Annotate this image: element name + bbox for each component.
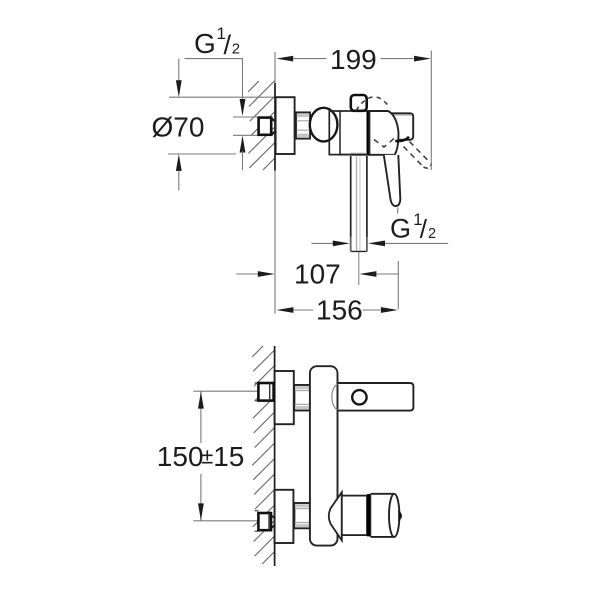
wall hatch (front view) [252, 346, 274, 564]
spout hole (front view) [352, 390, 366, 404]
body bottom edge (side view) [338, 154, 367, 156]
svg-text:2: 2 [232, 41, 240, 58]
upper flange (front view) [275, 371, 294, 424]
handle cylinder (front view) [342, 496, 367, 535]
G1/2 outlet dimension line and arrows [312, 237, 449, 252]
dashed lever raised position (side view) [404, 142, 432, 169]
lever hook under paddle (side view) [395, 137, 409, 141]
inlet pipe stub behind wall (side view) [233, 117, 275, 135]
dashed vee: paddle corner alternate position (side view) [374, 139, 394, 148]
wall face line (side view) with extension to lower dims [274, 52, 276, 314]
lower inlet union stubs [255, 511, 275, 532]
svg-text:199: 199 [330, 44, 377, 75]
spout root fillet arc (front view) [332, 384, 338, 409]
lower hex nut (front view) [294, 503, 310, 528]
dimension 150±15 [157, 391, 245, 521]
svg-text:/: / [420, 214, 428, 244]
Ø70 extension lines (flange top/bottom) [168, 97, 274, 154]
upper inlet union stubs [255, 383, 275, 401]
gray collar between body and outlet tube (side view) [351, 153, 367, 156]
tub spout (front view) [338, 383, 414, 411]
svg-text:G: G [194, 28, 216, 59]
svg-text:2: 2 [428, 226, 436, 242]
svg-text:156: 156 [316, 294, 363, 325]
lower flange (front view) [275, 490, 294, 543]
tube centerline extension (side view) [358, 252, 360, 285]
svg-text:150: 150 [157, 441, 204, 472]
lever tip nub (front view) [399, 512, 401, 519]
wall boundary lines (front view) [274, 346, 276, 566]
mixer body column (front view) [310, 366, 338, 545]
dimension 156 [276, 294, 398, 325]
extension line at lever tip x (for 107/156) [397, 261, 399, 309]
shower outlet tube (side view) [351, 156, 367, 251]
dimension 199 [276, 44, 431, 170]
svg-text:15: 15 [213, 441, 244, 472]
svg-text:Ø70: Ø70 [152, 112, 205, 143]
svg-text:/: / [224, 30, 232, 60]
ball joint (side view) [310, 108, 338, 142]
wall hatch (side view) [248, 81, 275, 170]
upper inlet reference line [193, 390, 258, 392]
G1/2 vertical with arrows to inlet pipe (top view) [240, 59, 246, 170]
thick separator body/handle-base (side view) [367, 111, 370, 156]
handle paddle (side view) [391, 113, 414, 140]
leader from lever tip to G1/2 (bottom outlet) [397, 208, 400, 214]
dimension G1/2 label (top left) [194, 24, 240, 60]
dimension G1/2 label (outlet) [390, 211, 436, 244]
wall flange / escutcheon (side view) [276, 97, 295, 154]
dashed arc: paddle swing position (side view) [356, 97, 390, 111]
svg-text:107: 107 [294, 259, 341, 290]
upper inlet nut square (front view) [258, 383, 273, 401]
lever arm pointing down (side view) [384, 155, 401, 206]
svg-text:±: ± [201, 444, 213, 469]
S-union hex nut (side view) [296, 112, 310, 138]
lower inlet nut square (front view) [258, 513, 271, 530]
dimension 107 [236, 259, 398, 290]
handle cone (front view) [329, 492, 342, 540]
mixer body (side view) [329, 111, 367, 155]
dimension line under G1/2 label [185, 58, 244, 60]
handle base escutcheon (side view) [369, 111, 398, 155]
Ø70 arrows [176, 59, 182, 191]
thick separator (front view handle) [367, 494, 370, 536]
upper hex nut (front view) [294, 385, 310, 411]
svg-text:G: G [390, 214, 411, 244]
lower inlet reference line [193, 520, 258, 522]
diverter knob on top (side view) [351, 95, 367, 111]
handle end knob with elliptical cap (front view) [371, 494, 400, 537]
